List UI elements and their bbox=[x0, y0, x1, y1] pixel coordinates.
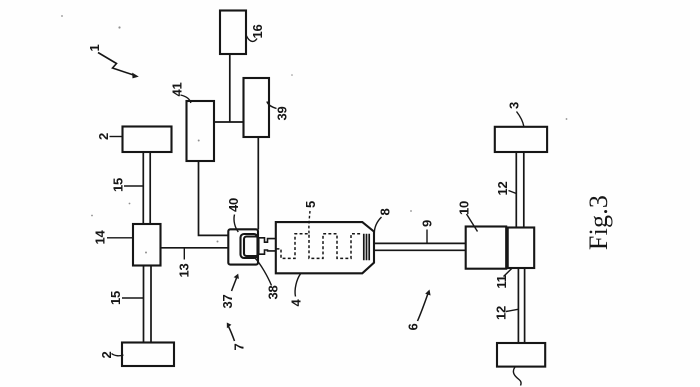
svg-text:12: 12 bbox=[494, 306, 509, 320]
label 40 bbox=[226, 198, 241, 212]
leader 4 bbox=[295, 274, 300, 297]
box 39 bbox=[244, 78, 270, 137]
leader 12 lower bbox=[506, 309, 518, 311]
label 2 bottom bbox=[99, 351, 114, 358]
shaft 12 lower (double line) bbox=[518, 269, 524, 343]
svg-text:14: 14 bbox=[93, 230, 108, 245]
leader 10 bbox=[467, 214, 478, 232]
box 2 bottom bbox=[122, 343, 174, 367]
svg-text:2: 2 bbox=[99, 351, 114, 358]
leader 15 lower bbox=[122, 297, 143, 299]
clutch output stub lower bbox=[258, 250, 276, 254]
svg-text:15: 15 bbox=[108, 291, 123, 305]
arrow 1 (zigzag) bbox=[98, 53, 139, 79]
label 6 bbox=[406, 323, 421, 330]
leader 3 bbox=[517, 112, 524, 127]
label 15 lower bbox=[108, 291, 123, 305]
svg-text:Fig.3: Fig.3 bbox=[584, 195, 613, 250]
label 3 bbox=[507, 102, 522, 109]
clutch output stub upper bbox=[258, 238, 276, 242]
leader 8 bbox=[374, 217, 381, 234]
box 16 bbox=[220, 11, 246, 55]
svg-text:7: 7 bbox=[232, 343, 247, 350]
label 15 upper bbox=[111, 178, 126, 192]
clutch inner plate B bbox=[244, 237, 259, 257]
clutch housing 37 bbox=[228, 229, 258, 264]
svg-text:12: 12 bbox=[495, 182, 510, 196]
shaft 15 upper (double line) bbox=[143, 152, 150, 224]
label 8 bbox=[378, 208, 393, 215]
label 7 bbox=[232, 343, 247, 350]
label 14 bbox=[93, 230, 108, 245]
svg-text:15: 15 bbox=[111, 178, 126, 192]
wire from box 41 down and right to clutch bbox=[199, 161, 229, 235]
label 11 bbox=[494, 275, 509, 288]
leader 12 upper bbox=[509, 191, 517, 194]
svg-text:4: 4 bbox=[289, 298, 304, 306]
svg-text:38: 38 bbox=[266, 286, 281, 300]
arrow 6 bbox=[418, 290, 431, 322]
label 9 bbox=[420, 220, 435, 227]
wire from box 39 down to clutch bbox=[257, 137, 259, 230]
leader 14 bbox=[107, 237, 133, 239]
svg-text:5: 5 bbox=[303, 201, 318, 208]
svg-text:9: 9 bbox=[420, 220, 435, 227]
label 13 bbox=[177, 264, 192, 278]
wheel box 3 bbox=[495, 127, 547, 152]
leader 40 bbox=[234, 215, 238, 233]
flywheel plates bbox=[364, 234, 369, 260]
shaft 12 upper (double line) bbox=[516, 152, 524, 227]
leader 41 bbox=[181, 95, 191, 103]
leader 2 bottom bbox=[112, 354, 124, 356]
svg-text:3: 3 bbox=[507, 102, 522, 109]
label 39 bbox=[275, 107, 290, 121]
label 16 bbox=[250, 25, 265, 39]
svg-text:39: 39 bbox=[275, 107, 290, 121]
figure caption Fig.3 bbox=[584, 195, 613, 250]
scan specks bbox=[61, 15, 567, 253]
wheel box bottom right bbox=[497, 343, 545, 367]
leader 38 bbox=[255, 258, 272, 286]
svg-text:1: 1 bbox=[87, 44, 102, 51]
label 12 upper bbox=[495, 182, 510, 196]
svg-text:11: 11 bbox=[494, 275, 509, 288]
label 38 bbox=[266, 286, 281, 300]
svg-text:10: 10 bbox=[457, 201, 472, 215]
engine block 4 bbox=[276, 222, 374, 273]
wire from box 16 down to junction bbox=[229, 54, 231, 122]
label 37 bbox=[220, 295, 235, 309]
gearbox 11 bbox=[508, 228, 535, 269]
box 14 bbox=[133, 224, 161, 266]
svg-text:6: 6 bbox=[406, 323, 421, 330]
box 2 top bbox=[123, 127, 172, 153]
leader 9 bbox=[426, 230, 428, 244]
arrow 7 bbox=[227, 323, 235, 342]
svg-text:41: 41 bbox=[170, 83, 185, 97]
label 12 lower bbox=[494, 306, 509, 320]
leader 5 (dashed) bbox=[309, 211, 310, 233]
svg-text:40: 40 bbox=[226, 198, 241, 212]
label 5 bbox=[303, 201, 318, 208]
scan streak bottom bbox=[35, 384, 655, 386]
svg-text:2: 2 bbox=[96, 133, 111, 140]
box 41 bbox=[187, 101, 215, 161]
shaft 15 lower (double line) bbox=[144, 266, 152, 343]
shaft 9 (double line) bbox=[374, 243, 466, 250]
leader 15 upper bbox=[124, 185, 143, 187]
leader 39 bbox=[267, 102, 277, 109]
clutch inner plate A bbox=[241, 234, 258, 258]
label 41 bbox=[170, 83, 185, 97]
label 2 top bbox=[96, 133, 111, 140]
wire 13 bbox=[161, 247, 229, 249]
leader 2 top bbox=[110, 136, 123, 138]
svg-text:16: 16 bbox=[250, 25, 265, 39]
leader 16 bbox=[246, 36, 257, 42]
leader 11 bbox=[504, 268, 513, 277]
label 4 bbox=[289, 298, 304, 306]
damper spring 5 (dashed) bbox=[277, 234, 361, 259]
svg-text:37: 37 bbox=[220, 295, 235, 309]
svg-text:13: 13 bbox=[177, 264, 192, 278]
label 10 bbox=[457, 201, 472, 215]
svg-text:8: 8 bbox=[378, 208, 393, 215]
label 1 bbox=[87, 44, 102, 51]
leader of cut-off label below bottom wheel box bbox=[513, 367, 521, 386]
gearbox 10 bbox=[466, 227, 507, 269]
leader 13 bbox=[183, 249, 185, 260]
arrow 37 bbox=[232, 274, 239, 291]
wire junction 41-39 bbox=[214, 121, 244, 123]
